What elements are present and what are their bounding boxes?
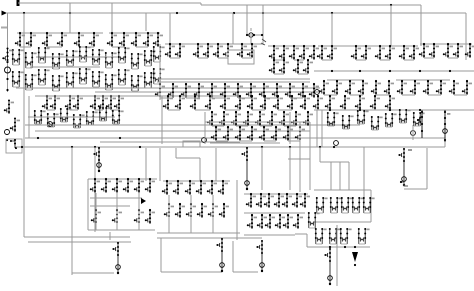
wire rail	[17, 32, 103, 34]
node	[263, 83, 265, 85]
transistor Q114	[235, 95, 245, 110]
wire	[157, 237, 240, 239]
node	[299, 126, 301, 128]
transistor pair Q32	[118, 69, 130, 85]
transistor Q93	[10, 117, 20, 132]
node	[201, 203, 203, 205]
wire rail	[163, 180, 230, 182]
transistor pair Q23	[153, 46, 165, 62]
transistor Q165	[218, 180, 228, 195]
wire pair	[252, 109, 265, 111]
wire pair	[402, 94, 415, 96]
wire	[176, 157, 200, 159]
transistor Q127	[291, 111, 301, 126]
transistor Q129	[211, 126, 221, 141]
wire	[71, 147, 73, 275]
transistor Q159	[145, 209, 155, 224]
wire pair	[424, 57, 434, 59]
transistor pair Q143	[327, 112, 339, 126]
node	[283, 111, 285, 113]
wire	[250, 37, 252, 44]
transistor Q136	[295, 126, 305, 141]
node	[168, 203, 170, 205]
node	[78, 32, 80, 34]
transistor Q60	[246, 83, 256, 98]
source circle	[249, 33, 253, 37]
node	[167, 95, 169, 97]
transistor Q117	[273, 95, 283, 110]
transistor pair Q192	[329, 228, 341, 244]
node	[453, 80, 455, 82]
transistor Q1	[15, 32, 25, 47]
transistor pair Q103	[47, 113, 59, 127]
node	[390, 4, 392, 6]
node	[200, 180, 202, 182]
wire	[289, 147, 291, 190]
wire	[288, 158, 310, 160]
wire	[145, 13, 147, 31]
transistor Q5	[74, 32, 84, 47]
transistor Q64	[298, 83, 308, 98]
transistor Q54	[168, 83, 178, 98]
transistor Q119	[300, 95, 310, 110]
transistor Q83	[371, 80, 381, 95]
wire pair	[168, 109, 180, 111]
wire	[175, 148, 177, 158]
transistor pair Q31	[105, 74, 117, 90]
node	[94, 178, 96, 180]
node	[277, 95, 279, 97]
wire	[320, 161, 349, 163]
transistor pair Q18	[92, 49, 104, 65]
node	[261, 146, 263, 148]
node	[268, 193, 270, 195]
node	[275, 126, 277, 128]
wire	[159, 44, 161, 100]
wire	[314, 70, 474, 72]
wire	[212, 195, 214, 233]
node	[37, 137, 39, 139]
wire pair	[47, 109, 55, 111]
wire pair	[170, 57, 180, 59]
node	[333, 146, 335, 148]
transistor pair Q14	[38, 47, 50, 63]
transistor Q46	[289, 45, 299, 60]
node	[194, 95, 196, 97]
wire	[35, 95, 240, 97]
wire pair	[212, 97, 225, 99]
wire	[94, 147, 96, 232]
node	[21, 146, 23, 148]
node	[276, 83, 278, 85]
transistor Q67	[327, 45, 337, 60]
wire	[363, 147, 365, 202]
node	[344, 246, 346, 248]
transistor Q48	[309, 45, 319, 60]
node	[293, 45, 295, 47]
node	[359, 109, 361, 111]
wire	[90, 197, 142, 199]
wire	[16, 87, 320, 89]
wire	[138, 193, 140, 230]
node	[304, 95, 306, 97]
node	[469, 43, 471, 45]
transistor Q131	[235, 126, 245, 141]
node	[127, 178, 129, 180]
transistor pair Q189	[352, 197, 364, 213]
transistor Q37	[175, 43, 185, 58]
wire pair	[274, 59, 284, 61]
node	[449, 70, 451, 72]
transistor Q126	[279, 111, 289, 126]
node	[362, 80, 364, 82]
transistor Q170	[208, 203, 218, 218]
wire	[157, 232, 240, 234]
wire	[244, 212, 305, 214]
node	[69, 12, 71, 14]
transistor pair Q193	[340, 228, 352, 244]
tiny mark	[401, 182, 408, 186]
node	[30, 32, 32, 34]
node	[389, 45, 391, 47]
transistor pair Q12	[12, 49, 24, 65]
node	[365, 45, 367, 47]
node	[215, 126, 217, 128]
transistor pair Q190	[363, 197, 375, 213]
transistor Q141	[370, 95, 380, 110]
transistor Q101	[114, 95, 124, 110]
wire	[28, 241, 131, 243]
wire	[159, 148, 161, 181]
wire	[161, 96, 163, 144]
node	[251, 214, 253, 216]
node	[444, 123, 446, 125]
wire pair	[290, 97, 303, 99]
node	[111, 32, 113, 34]
node	[227, 43, 229, 45]
wire pair	[345, 109, 360, 111]
transistor pair Q185	[308, 212, 320, 228]
wire	[261, 147, 263, 190]
node	[222, 180, 224, 182]
transistor Q125	[267, 111, 277, 126]
wire	[233, 271, 258, 273]
transistor pair Q186	[316, 197, 328, 213]
transistor Q94	[42, 95, 52, 110]
node	[95, 209, 97, 211]
node	[77, 95, 79, 97]
wire	[100, 141, 240, 143]
transistor pair Q191	[315, 228, 327, 244]
wire pair	[294, 59, 304, 61]
transistor Q163	[196, 180, 206, 195]
wire top bus A2	[201, 4, 421, 6]
node	[447, 43, 449, 45]
chain	[256, 240, 264, 272]
transistor Q112	[205, 95, 215, 110]
transistor Q174	[264, 193, 274, 208]
node	[283, 45, 285, 47]
node	[179, 203, 181, 205]
wire pair	[20, 46, 31, 48]
node	[331, 12, 333, 14]
transistor pair Q145	[357, 110, 369, 124]
node	[46, 95, 48, 97]
wire	[157, 78, 310, 80]
node	[421, 116, 423, 118]
node	[93, 32, 95, 34]
wire pair	[284, 125, 296, 127]
transistor pair Q19	[105, 52, 117, 68]
node	[286, 193, 288, 195]
node	[217, 43, 219, 45]
wire	[295, 233, 307, 235]
node	[262, 12, 264, 14]
wire	[157, 81, 310, 83]
wire top bus A	[18, 2, 201, 4]
node	[297, 59, 299, 61]
transistor pair Q22	[144, 50, 156, 66]
node	[349, 80, 351, 82]
transistor pair Q194	[358, 228, 370, 244]
transistor pair Q148	[399, 109, 411, 123]
node	[379, 45, 381, 47]
node	[212, 203, 214, 205]
wire rail	[88, 178, 157, 180]
transistor Q66	[317, 45, 327, 60]
node	[102, 95, 104, 97]
transistor Q2	[26, 32, 36, 47]
wire	[23, 33, 25, 150]
wire pair	[356, 59, 366, 61]
transistor Q122	[231, 111, 241, 126]
transistor pair Q30	[92, 71, 104, 87]
transistor Q6	[89, 32, 99, 47]
transistor Q172	[246, 193, 256, 208]
node	[296, 193, 298, 195]
transistor Q50	[279, 59, 289, 74]
transistor Q139	[340, 95, 350, 110]
wire	[161, 271, 222, 273]
node	[273, 59, 275, 61]
transistor Q8	[119, 32, 129, 47]
wire pair	[236, 125, 248, 127]
wire rail	[327, 79, 364, 81]
transistor Q96	[65, 95, 75, 110]
node	[251, 95, 253, 97]
node	[139, 146, 141, 148]
node	[211, 111, 213, 113]
transistor pair Q29	[79, 68, 91, 84]
node	[289, 83, 291, 85]
port	[443, 129, 448, 134]
node	[419, 70, 421, 72]
node	[304, 193, 306, 195]
transistor pair Q21	[131, 53, 143, 69]
transistor pair Q16	[66, 50, 78, 66]
node	[157, 32, 159, 34]
node	[251, 43, 253, 45]
transistor pair Q146	[371, 116, 383, 130]
wire pair	[376, 94, 389, 96]
wire	[199, 158, 201, 181]
node	[421, 130, 423, 132]
wire	[23, 150, 25, 237]
node	[159, 83, 161, 85]
chain	[324, 248, 332, 285]
node	[283, 59, 285, 61]
transistor Q167	[175, 203, 185, 218]
chain	[398, 148, 406, 186]
transistor Q99	[98, 95, 108, 110]
wire pair	[238, 97, 251, 99]
node	[185, 83, 187, 85]
wire rail	[307, 246, 370, 248]
wire pair	[404, 59, 414, 61]
transistor pair Q33	[131, 75, 143, 91]
chain	[112, 242, 120, 274]
node	[466, 80, 468, 82]
transistor Q116	[260, 95, 270, 110]
node	[71, 146, 73, 148]
transistor pair Q17	[79, 46, 91, 62]
transistor Q152	[112, 178, 122, 193]
wire pair	[448, 57, 458, 59]
transistor Q62	[272, 83, 282, 98]
node	[344, 95, 346, 97]
box QM	[6, 139, 22, 153]
transistor pair Q107	[99, 107, 111, 121]
transistor Q128	[303, 111, 313, 126]
node	[19, 32, 21, 34]
wire	[232, 241, 234, 272]
transistor Q168	[186, 203, 196, 218]
transistor Q110	[175, 95, 185, 110]
transistor Q44	[269, 45, 279, 60]
wire	[35, 130, 310, 132]
node	[414, 80, 416, 82]
port	[5, 130, 10, 135]
transistor Q38	[193, 43, 203, 58]
node	[259, 111, 261, 113]
label	[447, 113, 450, 115]
node	[197, 43, 199, 45]
transistor Q158	[134, 209, 144, 224]
transistor Q150	[90, 178, 100, 193]
node	[321, 45, 323, 47]
transistor pair Q187	[330, 197, 342, 213]
node	[419, 109, 421, 111]
wire	[314, 109, 474, 111]
wire rail	[268, 45, 316, 47]
node	[295, 111, 297, 113]
transistor Q155	[145, 178, 155, 193]
chain	[241, 147, 249, 190]
wire pair	[318, 109, 330, 111]
node	[307, 59, 309, 61]
node	[94, 95, 96, 97]
transistor Q132	[247, 126, 257, 141]
node	[233, 12, 235, 14]
node	[105, 178, 107, 180]
node	[264, 95, 266, 97]
node	[331, 45, 333, 47]
transistor Q130	[223, 126, 233, 141]
node	[423, 43, 425, 45]
wire pair	[242, 57, 252, 59]
transistor pair Q20	[118, 47, 130, 63]
wire	[289, 112, 291, 144]
transistor Q151	[101, 178, 111, 193]
transistor Q41	[223, 43, 233, 58]
transistor Q43	[247, 43, 257, 58]
transistor QM	[10, 139, 17, 149]
node	[149, 178, 151, 180]
wire	[237, 237, 262, 239]
wire	[169, 13, 171, 44]
transistor Q86	[410, 80, 420, 95]
wire	[88, 229, 155, 231]
transistor Q183	[283, 214, 293, 229]
transistor Q89	[449, 80, 459, 95]
wire	[370, 190, 372, 222]
node	[190, 203, 192, 205]
transistor Q11	[153, 32, 163, 47]
transistor Q137	[313, 95, 323, 110]
label smudge	[408, 149, 412, 151]
node	[61, 32, 63, 34]
node	[291, 95, 293, 97]
transistor Q63	[285, 83, 295, 98]
wire	[299, 170, 301, 192]
node	[237, 83, 239, 85]
transistor Q45	[279, 45, 289, 60]
node	[123, 32, 125, 34]
transistor Q153	[123, 178, 133, 193]
node	[269, 214, 271, 216]
node	[169, 43, 171, 45]
transistor Q123	[243, 111, 253, 126]
transistor pair Q15	[52, 53, 64, 69]
transistor Q140	[355, 95, 365, 110]
node	[110, 95, 112, 97]
node	[239, 126, 241, 128]
wire pair	[428, 94, 441, 96]
node	[23, 12, 25, 14]
wire	[319, 147, 321, 162]
node	[223, 111, 225, 113]
transistor Q154	[134, 178, 144, 193]
transistor Q59	[233, 83, 243, 98]
wire tick	[250, 28, 252, 31]
wire pair	[195, 109, 210, 111]
wire	[330, 162, 332, 190]
transistor pair Q149	[413, 112, 425, 126]
box outline	[228, 50, 254, 64]
transistor pair Q27	[52, 75, 64, 91]
wire pair	[47, 46, 62, 48]
transistor Q91	[2, 47, 12, 62]
transistor Q73	[409, 45, 419, 60]
node	[177, 180, 179, 182]
node	[317, 95, 319, 97]
wire	[331, 13, 333, 45]
wire pair	[375, 109, 390, 111]
port	[315, 90, 320, 95]
transistor Q42	[237, 43, 247, 58]
wire rail	[165, 43, 262, 45]
node	[329, 246, 331, 248]
